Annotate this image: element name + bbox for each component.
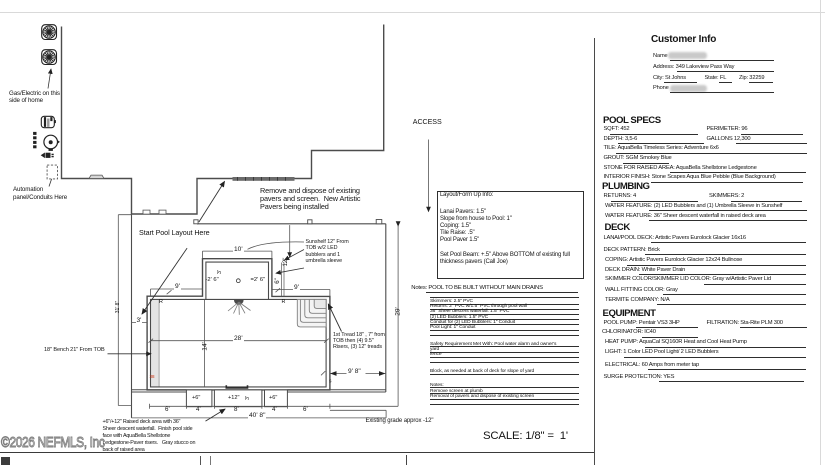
label sunshelf note — [306, 239, 349, 265]
name row — [653, 53, 668, 59]
wall fitting row — [605, 287, 678, 293]
sunshelf inner walls — [206, 262, 269, 299]
deck bottom right segment — [287, 390, 385, 392]
stone row — [604, 165, 757, 171]
lanai deck row — [604, 235, 746, 241]
pool outer wall — [147, 259, 330, 390]
phone row — [653, 85, 669, 91]
light row — [605, 349, 718, 355]
water feature 1 — [605, 203, 782, 209]
dim 14' vertical — [204, 299, 206, 387]
leader automation — [49, 168, 56, 187]
address row — [653, 64, 734, 70]
dim 9' 8" — [347, 368, 362, 375]
screen post square 3 — [376, 220, 382, 224]
screen post square 2 — [308, 220, 312, 224]
lanai left edge — [131, 214, 133, 418]
blank rule — [430, 362, 579, 363]
blank rule — [430, 297, 579, 298]
dim line 9' right — [272, 288, 330, 296]
dim 6' seg2 — [303, 406, 308, 413]
note fence — [430, 352, 442, 357]
electrical row — [605, 362, 699, 368]
dim 8' seg — [234, 406, 239, 413]
leader raised deck note — [206, 409, 226, 421]
R marker right — [282, 299, 286, 305]
note conduit — [430, 320, 515, 325]
dim 40' 8" — [248, 412, 266, 419]
water feature 2 — [605, 213, 766, 219]
bottom cut-off ticks — [200, 456, 201, 465]
sheet bottom border — [0, 452, 594, 453]
city row — [653, 75, 686, 81]
dim line 40'8" — [132, 417, 387, 419]
raised deck box +12 — [214, 390, 262, 407]
dim extension 9'8 bottom — [330, 410, 386, 418]
coping row — [605, 257, 742, 263]
dim 4' seg2 — [272, 406, 277, 413]
dim 14' rotated — [202, 338, 209, 356]
note safety — [430, 342, 556, 347]
dim 3' rotated sunshelf — [217, 265, 223, 279]
pool inner wall — [151, 299, 327, 387]
note removal pavers — [430, 394, 534, 399]
pool width dim line A — [150, 404, 399, 409]
termite row — [605, 297, 670, 303]
returns row — [604, 193, 636, 199]
skimmer color row — [605, 276, 771, 282]
label start pool layout — [139, 228, 210, 237]
dim 3' — [136, 317, 143, 324]
dim 12" rotated — [283, 254, 289, 270]
leader 1st tread — [328, 304, 341, 332]
AC fan unit 2 — [42, 50, 57, 65]
dim 3' rotated box — [245, 391, 251, 405]
dim 4' seg — [196, 406, 201, 413]
box +6 b — [269, 395, 277, 401]
dim 29' rotated — [395, 303, 402, 321]
leader gas/electric — [48, 69, 51, 89]
gas meter — [44, 135, 60, 151]
depth -2'6 left — [206, 277, 219, 283]
page top edge — [0, 12, 825, 13]
surge row — [604, 374, 675, 380]
note remove screen — [430, 389, 483, 394]
bottom-left cut-off glyphs — [1, 457, 10, 465]
blank rule — [430, 335, 579, 336]
dim 9' left — [174, 283, 181, 290]
small stacked marks — [33, 132, 36, 148]
R marker left — [159, 299, 163, 305]
notes heading — [411, 285, 543, 291]
layout/form up info box — [437, 191, 584, 280]
tile row — [604, 145, 719, 151]
pool pump row — [604, 320, 680, 326]
leader curve 10' to sunshelf text — [248, 242, 305, 249]
note sheer descent — [430, 309, 509, 314]
depth row — [604, 136, 638, 142]
door threshold bump — [89, 175, 104, 178]
leader start pool layout down — [142, 248, 187, 314]
blank rule — [430, 404, 579, 405]
equipment title — [603, 308, 656, 319]
dim 28' — [233, 335, 244, 342]
sqft row — [604, 126, 630, 132]
dim 9' right — [293, 284, 300, 291]
note bubblers — [430, 315, 488, 320]
pool specs title — [603, 115, 661, 126]
note skimmers — [430, 299, 473, 304]
deck drain row — [605, 267, 685, 273]
red mark — [150, 374, 155, 379]
label gas/electric — [9, 90, 60, 105]
left height dim rotated — [115, 297, 121, 317]
box +12 — [228, 395, 239, 401]
dim 6' seg — [165, 406, 170, 413]
note notes2 — [430, 383, 444, 388]
raised deck box +6 right — [265, 390, 288, 407]
dim line 28' — [149, 339, 329, 343]
leader sunshelf 2 — [276, 268, 304, 273]
pool bench strip — [151, 299, 160, 387]
deck title — [605, 222, 630, 233]
deck pattern row — [604, 247, 660, 253]
depth 2'6 right — [251, 277, 266, 283]
electric meter — [41, 116, 56, 127]
umbrella sleeve hole o — [236, 279, 240, 283]
dim 29' vertical — [397, 226, 399, 406]
pavers-to-remove bar — [233, 177, 295, 181]
note pool light — [430, 325, 475, 330]
note yard — [430, 347, 439, 352]
note block — [430, 369, 534, 374]
label automation panel — [13, 186, 67, 201]
leader sunshelf 1 — [285, 250, 305, 261]
sheer descent notch — [226, 385, 247, 388]
AC fan unit 1 — [42, 25, 57, 40]
dim 3' left — [132, 319, 148, 326]
label raised deck note — [103, 419, 196, 454]
dim 6" rotated — [275, 274, 281, 288]
heat pump row — [605, 339, 747, 345]
dim 6" vertical — [282, 263, 285, 297]
hose bib symbol — [41, 153, 54, 159]
plumbing title — [602, 181, 650, 192]
chlorinator row — [602, 329, 656, 335]
label existing grade — [366, 418, 434, 424]
note returns — [430, 304, 527, 309]
page right edge — [820, 0, 821, 465]
leader bench — [108, 353, 152, 355]
left height dim line — [118, 215, 132, 406]
screen post square 1 — [194, 220, 198, 224]
watermark — [1, 434, 104, 451]
svg-text:s: s — [329, 379, 332, 385]
wall tick rect 1 — [143, 210, 150, 214]
dim line 9' left — [151, 289, 203, 296]
label scale — [483, 430, 568, 442]
label 1st tread note — [333, 332, 385, 351]
leader start pool layout up — [199, 182, 225, 223]
label access — [413, 118, 442, 126]
stairs corner — [297, 299, 326, 327]
lanai right edge — [385, 224, 387, 392]
label remove and dispose — [260, 187, 360, 212]
customer info title — [651, 34, 716, 45]
dim 12" vertical — [289, 225, 291, 257]
house wall outline — [62, 25, 384, 215]
deck bottom left segment — [132, 390, 187, 392]
dim line 10' — [203, 251, 272, 259]
leader access — [428, 140, 430, 212]
label 18in bench — [44, 347, 105, 353]
box +6 — [192, 395, 200, 401]
dim 9'8" — [321, 371, 386, 375]
automation panel dashed box — [47, 165, 57, 179]
umbrella sleeve symbol — [234, 300, 244, 305]
lanai top boundary — [197, 223, 386, 225]
wall tick rect 2 — [159, 210, 166, 214]
panel divider line — [594, 38, 595, 465]
grout row — [604, 155, 672, 161]
interior finish row — [604, 174, 776, 180]
dim 10' — [233, 246, 244, 253]
raised deck box +6 left — [186, 390, 212, 407]
